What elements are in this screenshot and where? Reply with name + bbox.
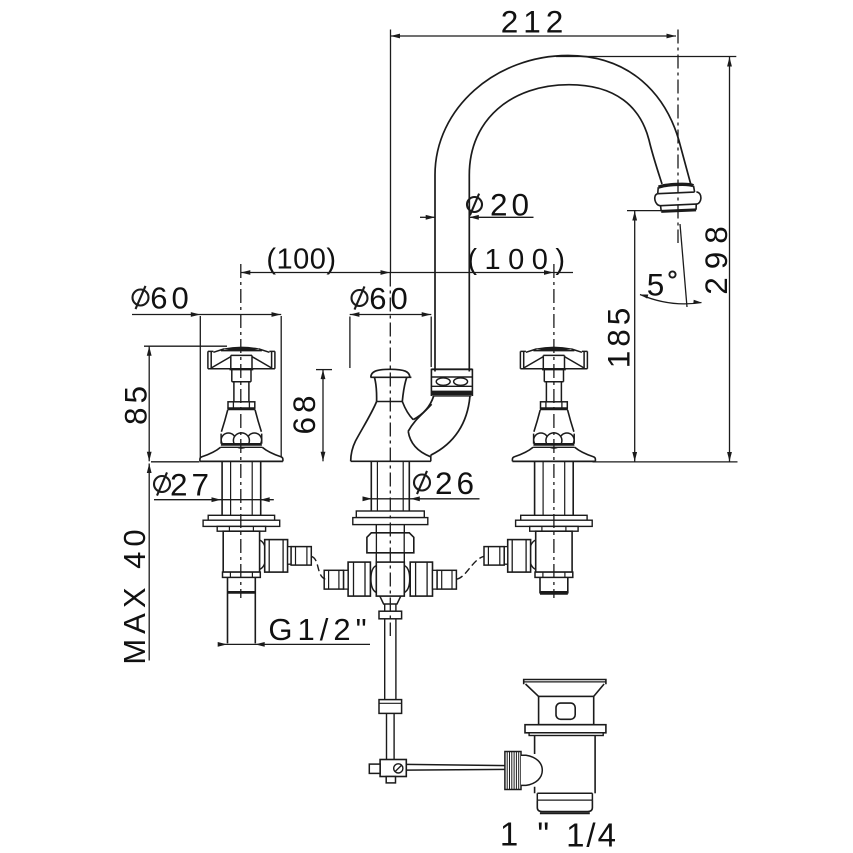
drain upper block xyxy=(539,696,594,724)
right handle bell xyxy=(534,410,540,432)
dim line 68 xyxy=(322,370,324,462)
pivot clevis xyxy=(380,760,406,777)
lift rod collar xyxy=(379,611,402,619)
right valve body xyxy=(536,531,572,572)
left handle stem xyxy=(232,370,251,382)
tee right nipple xyxy=(433,570,438,589)
right threaded tail G1/2 xyxy=(540,577,568,593)
pivot knurled nut xyxy=(505,752,521,790)
left compression nut xyxy=(265,540,288,573)
aerator ring 3 xyxy=(661,204,697,211)
svg-text:(100): (100) xyxy=(467,244,572,276)
svg-text:26: 26 xyxy=(435,465,478,501)
pivot port dome xyxy=(521,755,542,785)
lift rod tube xyxy=(385,619,396,700)
tee left nipple xyxy=(344,570,349,589)
body left outline xyxy=(351,402,377,462)
aerator ring 3 bottom edge xyxy=(661,210,696,212)
dim line G1/2 xyxy=(219,643,371,645)
body shading curve xyxy=(408,404,431,431)
svg-text:85: 85 xyxy=(118,382,154,425)
svg-text:27: 27 xyxy=(170,467,213,503)
body seam line xyxy=(377,401,403,403)
spout collar dark band xyxy=(432,391,472,396)
dim text Φ27 xyxy=(154,476,170,492)
centre line spout body xyxy=(389,273,391,637)
body cap base line xyxy=(370,376,411,378)
lift rod coupler xyxy=(379,700,402,714)
left handle skirt xyxy=(200,447,221,461)
lift rod upper tube xyxy=(385,604,396,611)
left handle collar xyxy=(228,402,255,408)
dim line 298 xyxy=(729,57,731,462)
pivot rod to drain xyxy=(406,764,508,765)
body right upper outline xyxy=(402,402,413,420)
spout elbow outer curve xyxy=(431,397,470,456)
svg-text:MAX 40: MAX 40 xyxy=(117,524,152,664)
right tail collar xyxy=(535,572,573,577)
5 degree arc xyxy=(640,295,702,304)
extension line 68 top xyxy=(316,369,332,371)
centre neck xyxy=(376,525,404,533)
svg-text:5: 5 xyxy=(647,266,665,302)
spout outer wall xyxy=(435,56,691,372)
centre line right handle xyxy=(553,264,555,598)
aerator ring 2 bulge xyxy=(655,192,702,206)
drain body xyxy=(534,736,536,794)
right shank xyxy=(535,462,574,515)
spout leg collar rings xyxy=(431,369,472,396)
tee left compression nut xyxy=(348,562,370,596)
body neck left xyxy=(374,377,376,401)
aerator ring 1 xyxy=(657,186,694,194)
body cap dome xyxy=(371,369,410,377)
centre shank xyxy=(371,462,409,511)
left handle beaded ring xyxy=(221,434,262,444)
svg-text:1/4: 1/4 xyxy=(566,817,618,853)
extension line 85 top xyxy=(144,345,227,347)
dim line Φ27 xyxy=(154,499,274,501)
right compression nut xyxy=(508,540,531,573)
left valve body xyxy=(223,531,259,572)
svg-text:G1/2": G1/2" xyxy=(268,612,371,647)
body base line xyxy=(351,460,431,462)
right handle beaded ring xyxy=(534,434,575,444)
flexible hose left (dashed wave) xyxy=(311,556,325,579)
left tail collar xyxy=(223,572,261,577)
right cross handle xyxy=(537,347,572,350)
dim line (100)+(100) xyxy=(241,272,573,274)
left deck washer xyxy=(208,515,274,520)
aerator ring 1 top edge xyxy=(658,184,693,188)
right side outlet bulge xyxy=(529,540,535,570)
right deck washer xyxy=(521,515,587,520)
dim line 185 xyxy=(634,211,636,462)
5 degree tilted line xyxy=(680,224,687,307)
svg-text:68: 68 xyxy=(286,391,322,434)
right hose nipple xyxy=(504,547,508,565)
dim text Φ60 left xyxy=(133,290,149,306)
right lock nut xyxy=(530,526,578,531)
spout inner wall xyxy=(469,85,662,372)
tee right compression nut xyxy=(410,562,432,596)
left threaded tail G1/2 xyxy=(228,577,256,643)
extension line 298 top xyxy=(556,56,736,58)
deck extension line left xyxy=(151,461,200,463)
extension/centre line x=678 (outlet) xyxy=(677,30,679,244)
svg-text:(100): (100) xyxy=(266,244,336,276)
lift rod taper xyxy=(380,596,401,604)
svg-text:185: 185 xyxy=(601,304,637,369)
left shank xyxy=(222,462,261,515)
svg-text:1 ": 1 " xyxy=(500,816,554,853)
dim line Φ20 xyxy=(420,216,435,218)
centre deck washer xyxy=(356,511,424,518)
extension line x=390 (spout centre) xyxy=(390,30,392,273)
drain top flare xyxy=(524,680,606,685)
body right corner edge xyxy=(430,455,432,461)
spout elbow inner curve xyxy=(413,396,433,419)
dim text Φ60 centre xyxy=(352,290,368,306)
left hose nipple xyxy=(288,547,292,565)
body right lower outline xyxy=(408,431,431,457)
extension lines Φ60 centre xyxy=(349,317,351,369)
dim line 85 xyxy=(148,346,150,461)
deck extension line right xyxy=(593,461,738,463)
right handle skirt xyxy=(512,447,533,461)
lift rod lower rod xyxy=(387,713,395,759)
body neck right xyxy=(402,377,407,401)
drain flange xyxy=(525,725,606,733)
centre neck 2 xyxy=(376,553,404,562)
right handle stem xyxy=(544,370,563,382)
centre hex nut xyxy=(367,533,414,553)
left cross handle xyxy=(224,347,259,350)
svg-text:60: 60 xyxy=(150,280,192,315)
centre line left handle xyxy=(240,264,242,598)
dim text Φ20 xyxy=(467,197,482,212)
tee body xyxy=(376,562,404,596)
dim line Φ60 centre xyxy=(350,314,432,316)
left lock nut xyxy=(217,526,265,531)
right handle collar xyxy=(541,402,568,408)
left handle bell xyxy=(221,410,227,432)
dim text Φ26 xyxy=(414,475,430,491)
svg-text:212: 212 xyxy=(501,4,569,40)
extension lines Φ60 left xyxy=(199,316,201,458)
dim line Φ60 left xyxy=(132,314,281,316)
dim line 212 xyxy=(391,35,677,37)
left side outlet bulge xyxy=(260,540,266,570)
drain tail xyxy=(537,792,592,794)
dim line MAX 40 xyxy=(148,464,150,661)
flexible hose right (dashed wave) xyxy=(456,556,484,579)
svg-text:298: 298 xyxy=(698,218,734,295)
dim line Φ26 xyxy=(365,498,480,500)
extension line 185 top xyxy=(627,210,661,212)
